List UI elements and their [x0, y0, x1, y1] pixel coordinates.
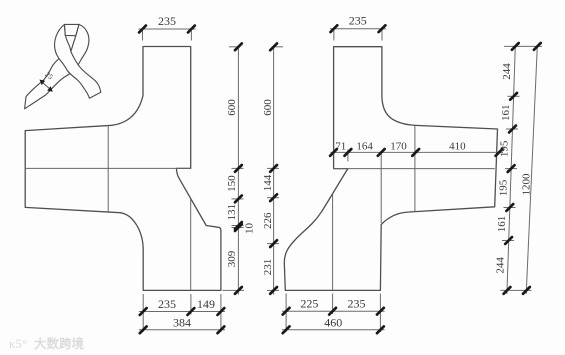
svg-text:235: 235: [158, 297, 176, 311]
svg-text:170: 170: [390, 141, 407, 153]
svg-text:131: 131: [226, 204, 238, 221]
svg-text:231: 231: [262, 259, 274, 276]
svg-text:235: 235: [158, 14, 176, 28]
svg-text:144: 144: [262, 174, 274, 191]
svg-text:150: 150: [226, 175, 238, 192]
svg-text:149: 149: [197, 297, 215, 311]
svg-text:10: 10: [244, 223, 256, 235]
svg-text:大数跨境: 大数跨境: [34, 336, 85, 351]
svg-text:225: 225: [300, 297, 318, 311]
svg-text:600: 600: [226, 99, 238, 116]
svg-text:κ5°: κ5°: [9, 336, 27, 351]
svg-text:235: 235: [348, 297, 366, 311]
svg-text:71: 71: [335, 141, 346, 153]
svg-text:600: 600: [262, 99, 274, 116]
svg-text:244: 244: [495, 257, 507, 274]
svg-text:161: 161: [500, 104, 512, 121]
svg-text:1200: 1200: [521, 173, 533, 196]
svg-text:161: 161: [496, 216, 508, 233]
svg-text:384: 384: [173, 315, 191, 329]
svg-text:410: 410: [449, 141, 466, 153]
svg-text:195: 195: [497, 179, 509, 196]
svg-text:309: 309: [226, 250, 238, 267]
svg-text:235: 235: [349, 14, 367, 28]
svg-text:226: 226: [262, 212, 274, 229]
svg-text:195: 195: [499, 140, 511, 157]
svg-text:244: 244: [501, 63, 513, 80]
svg-text:460: 460: [324, 315, 342, 329]
svg-text:164: 164: [356, 141, 373, 153]
